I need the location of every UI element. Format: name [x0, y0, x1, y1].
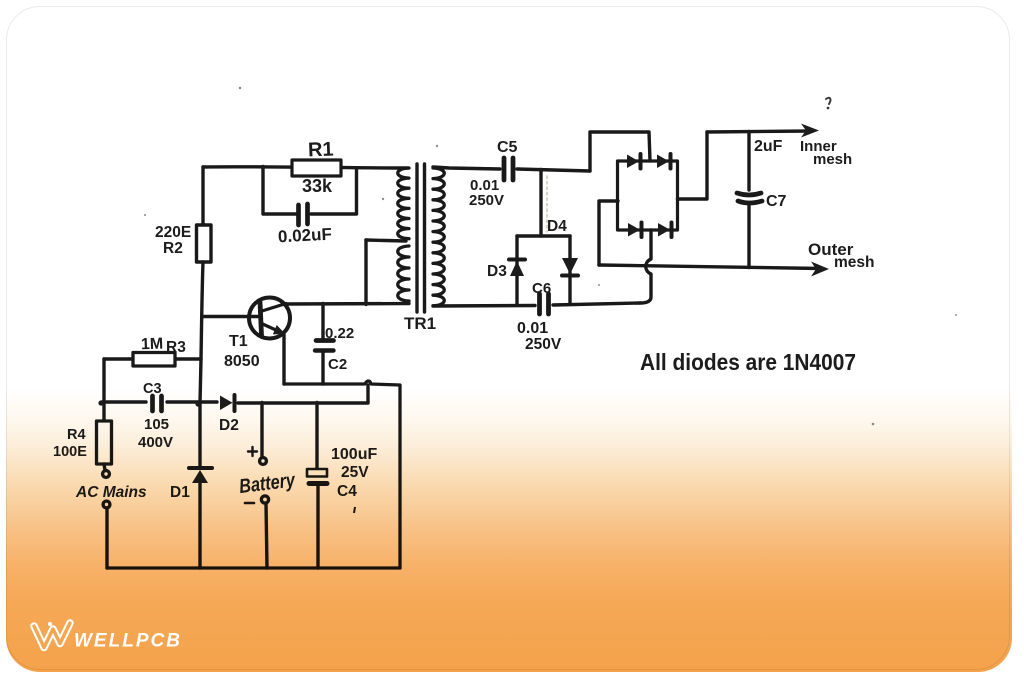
svg-text:WELLPCB: WELLPCB [74, 631, 182, 652]
